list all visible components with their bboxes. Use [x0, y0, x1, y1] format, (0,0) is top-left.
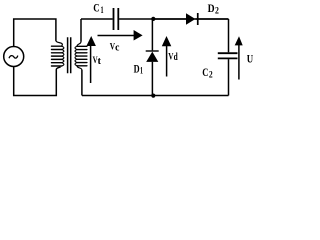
svg-text:D: D	[208, 3, 215, 15]
svg-text:d: d	[174, 51, 178, 63]
svg-text:C: C	[93, 3, 99, 15]
svg-text:2: 2	[209, 71, 213, 81]
svg-text:C: C	[202, 67, 208, 79]
svg-text:1: 1	[140, 67, 143, 77]
svg-text:1: 1	[101, 6, 104, 16]
svg-text:t: t	[98, 55, 102, 67]
svg-text:D: D	[134, 63, 140, 75]
svg-text:U: U	[247, 54, 254, 66]
svg-text:2: 2	[215, 7, 219, 17]
svg-text:c: c	[115, 41, 119, 53]
